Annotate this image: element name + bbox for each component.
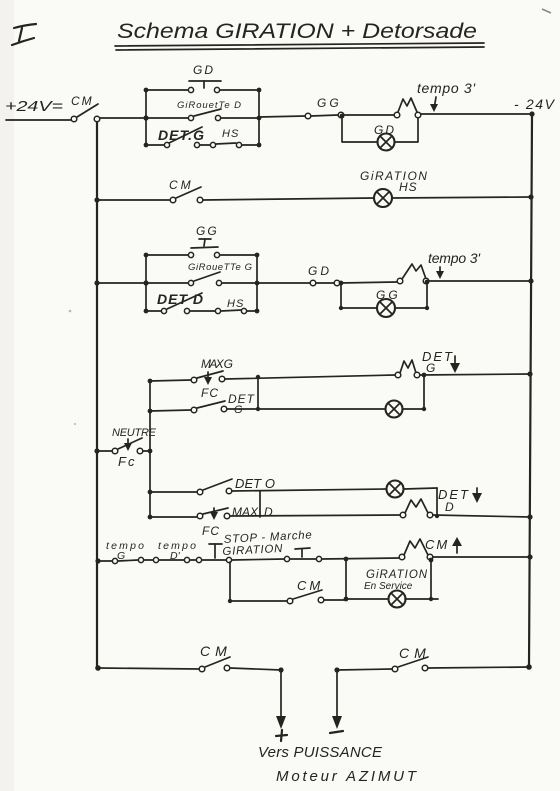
contact CM (top left) — [71, 94, 100, 122]
wire CM to right rail bottom — [428, 667, 530, 668]
svg-text:HS: HS — [399, 180, 418, 194]
title: Schema GIRATION + Detorsade — [115, 20, 484, 50]
svg-text:GD: GD — [193, 63, 215, 77]
svg-text:tempo 3': tempo 3' — [428, 250, 481, 266]
contact DET G lower (rung4 bottom branch) — [150, 392, 256, 416]
wire rung2 right — [392, 197, 531, 198]
wire GD to timer (rung3) — [340, 282, 397, 283]
label GD coil link — [189, 63, 221, 88]
wire minus node to CM right — [337, 669, 392, 670]
vertical link rung7 to lamp branch — [344, 559, 349, 601]
junction dot bottom left rail — [95, 665, 101, 671]
contact DET G (rung1 box bottom branch) — [146, 127, 210, 148]
contact CM (rung2) — [169, 178, 203, 203]
svg-text:GiRATION: GiRATION — [366, 569, 428, 581]
wire rung5 to lamp — [232, 489, 386, 491]
wire GG to timer contact — [344, 114, 394, 116]
wire rung6 to timer — [230, 515, 400, 516]
junction dot rung2 left rail — [94, 197, 99, 202]
contact FC / MAX D (rung6) — [150, 508, 230, 538]
wire bottom left — [98, 668, 199, 669]
svg-text:CM: CM — [399, 645, 431, 661]
label DET G with down arrow (rung4) — [422, 349, 460, 375]
rung1 box left edge — [145, 90, 147, 145]
contact GIROUETTE G (rung3 box middle branch) — [146, 262, 257, 286]
pushbutton FC (rung7) — [190, 544, 232, 563]
svg-text:NEUTRE: NEUTRE — [112, 427, 157, 439]
sheet numeral I — [12, 24, 36, 45]
pushbutton STOP-Marche GIRATION (rung7) — [232, 548, 322, 562]
timer contact tempo 3' (rung3) — [397, 264, 429, 284]
timer contact tempo 3' (rung1) — [394, 98, 421, 118]
junction dot NEUTRE left rail — [94, 448, 99, 453]
mid bus vertical — [149, 380, 151, 517]
wire CM to plus node — [230, 668, 281, 670]
svg-text:DET D: DET D — [157, 291, 203, 307]
contact GG (rung1) — [305, 96, 344, 119]
contact MAX G / FC (rung4 top) — [150, 357, 233, 400]
svg-text:GiRATION: GiRATION — [360, 169, 428, 183]
junction dot rung3 left rail — [94, 280, 99, 285]
vertical link lamp branch to rung7 right — [429, 558, 434, 602]
lamp GIRATION EN SERVICE — [346, 569, 438, 608]
label DET D with down arrow (rung6) — [438, 487, 482, 514]
svg-text:GiRouetTe D: GiRouetTe D — [177, 100, 241, 111]
wire rung7 to timer — [322, 558, 399, 559]
boundary marker MAX D — [232, 491, 273, 519]
svg-text:Moteur AZIMUT: Moteur AZIMUT — [276, 768, 418, 785]
svg-text:GD: GD — [308, 264, 332, 278]
junction dots mid bus — [148, 379, 153, 520]
wire rung6 timer to right rail — [433, 515, 530, 517]
vertical link rung4 branches right — [422, 373, 427, 412]
contact CM (bottom left) — [199, 643, 232, 672]
wire rail to rung1 box — [100, 117, 143, 119]
svg-text:CM: CM — [71, 94, 94, 108]
contact NEUTRE / FC — [97, 427, 157, 469]
contact GG (rung3 box top branch) — [146, 252, 257, 257]
svg-text:FC: FC — [202, 524, 220, 538]
svg-text:Vers PUISSANCE: Vers PUISSANCE — [258, 744, 383, 761]
svg-text:D: D — [264, 505, 273, 519]
wire box to contact GD (rung3) — [257, 282, 310, 284]
lamp GIRATION HS (rung2) — [360, 169, 428, 207]
vertical drop rung7 to CM branch — [229, 562, 231, 601]
junction dot rung4 right rail — [527, 371, 532, 376]
contact CM (hold branch) — [230, 578, 346, 604]
svg-text:Fc: Fc — [118, 454, 136, 469]
junction dot rung7 left rail — [95, 558, 100, 563]
contact tempo D (rung7) — [144, 540, 196, 563]
junction dot rung6 right rail — [527, 514, 532, 519]
contact tempo G (rung7) — [106, 540, 144, 564]
contact HS (rung1 box bottom branch) — [210, 128, 259, 148]
contact DET O (rung5) — [150, 476, 277, 495]
timer contact CM (rung7) — [399, 539, 433, 560]
timer contact DET D (rung6) — [400, 499, 433, 518]
label GG coil link (rung3) — [191, 224, 219, 248]
stray speck left margin — [69, 310, 72, 313]
svg-text:tempo 3': tempo 3' — [417, 80, 476, 96]
wire rung4 bottom branch — [227, 408, 385, 410]
wire rung4 timer to right rail — [420, 374, 530, 375]
svg-text:- 24V: - 24V — [514, 96, 556, 112]
svg-text:CM: CM — [200, 643, 232, 659]
junction dot rung7 right rail — [527, 554, 532, 559]
wire timer to right rail (rung3) — [429, 280, 531, 282]
svg-text:FC: FC — [201, 386, 219, 400]
contact HS (rung3 box bottom branch) — [215, 298, 257, 314]
junction dot bottom right rail — [526, 664, 532, 670]
junction dot rung1 right rail — [529, 111, 534, 116]
wire from +24V to contact CM — [6, 119, 71, 121]
svg-text:MAX G: MAX G — [201, 357, 233, 371]
wire rung4 top to timer — [225, 375, 395, 379]
contact GIROUETTE D (rung1 box middle branch) — [146, 100, 259, 121]
wire rung7 timer to right rail — [433, 556, 530, 558]
label tempo 3' (rung1) — [417, 80, 476, 112]
lamp GG parallel branch (rung3) — [339, 280, 430, 317]
svg-text:HS: HS — [227, 298, 244, 310]
left rail +24V bus — [96, 122, 98, 668]
svg-text:GG: GG — [317, 96, 342, 110]
lamp DET D (rung5) — [387, 481, 438, 498]
wire rung7 left — [98, 560, 112, 562]
wire rung2 middle — [203, 198, 374, 200]
stray pen mark top right — [542, 9, 551, 13]
vertical link rung4 branches left — [256, 375, 260, 411]
svg-text:MAX: MAX — [232, 505, 259, 519]
contact CM (bottom right) — [392, 645, 431, 672]
label STOP-Marche GIRATION — [222, 529, 313, 558]
svg-text:+24V=: +24V= — [5, 98, 63, 115]
svg-text:GG: GG — [196, 224, 219, 238]
svg-text:D: D — [445, 500, 454, 514]
junction dots rung3 box — [143, 253, 259, 314]
rung3 box right edge — [256, 255, 258, 311]
rung1 box right edge — [258, 90, 260, 145]
wire box to contact GG — [259, 116, 305, 117]
label tempo 3' (rung3) — [428, 250, 481, 279]
svg-text:CM: CM — [169, 178, 194, 192]
svg-text:DET: DET — [438, 487, 470, 502]
label CM with up arrow (rung7) — [425, 537, 462, 553]
node plus with arrow to power — [276, 667, 287, 741]
contact DET D (rung3 box bottom branch) — [146, 291, 215, 314]
node minus with arrow to power — [330, 667, 343, 733]
svg-text:HS: HS — [222, 128, 239, 140]
svg-text:DET O: DET O — [235, 476, 277, 491]
junction dot rung7 mid — [344, 557, 349, 562]
junction dot rung2 right rail — [528, 194, 533, 199]
junction dot rung3 right rail — [528, 278, 533, 283]
wire timer to right rail — [421, 113, 530, 115]
lamp GD parallel branch (rung1) — [340, 114, 418, 151]
rung3 box left edge — [145, 255, 147, 311]
right rail -24V bus — [529, 115, 532, 667]
wire rail to rung3 box — [97, 282, 143, 284]
junction dot CM branch left — [228, 599, 232, 603]
contact GD (rung3) — [308, 264, 340, 286]
wire rung2 left — [97, 199, 170, 201]
svg-text:CM: CM — [425, 537, 449, 552]
vertical link rung5 to rung6 right — [435, 488, 439, 518]
svg-text:En Service: En Service — [364, 581, 413, 592]
lamp DET G (rung4) — [386, 401, 425, 418]
svg-text:G: G — [426, 361, 435, 375]
svg-text:Schema GIRATION + Detorsade: Schema GIRATION + Detorsade — [117, 20, 477, 43]
svg-text:G: G — [234, 404, 243, 416]
timer contact DET G (rung4) — [395, 360, 420, 378]
junction dots rung1 box — [143, 88, 261, 148]
contact GD (rung1 box top branch) — [146, 87, 259, 92]
